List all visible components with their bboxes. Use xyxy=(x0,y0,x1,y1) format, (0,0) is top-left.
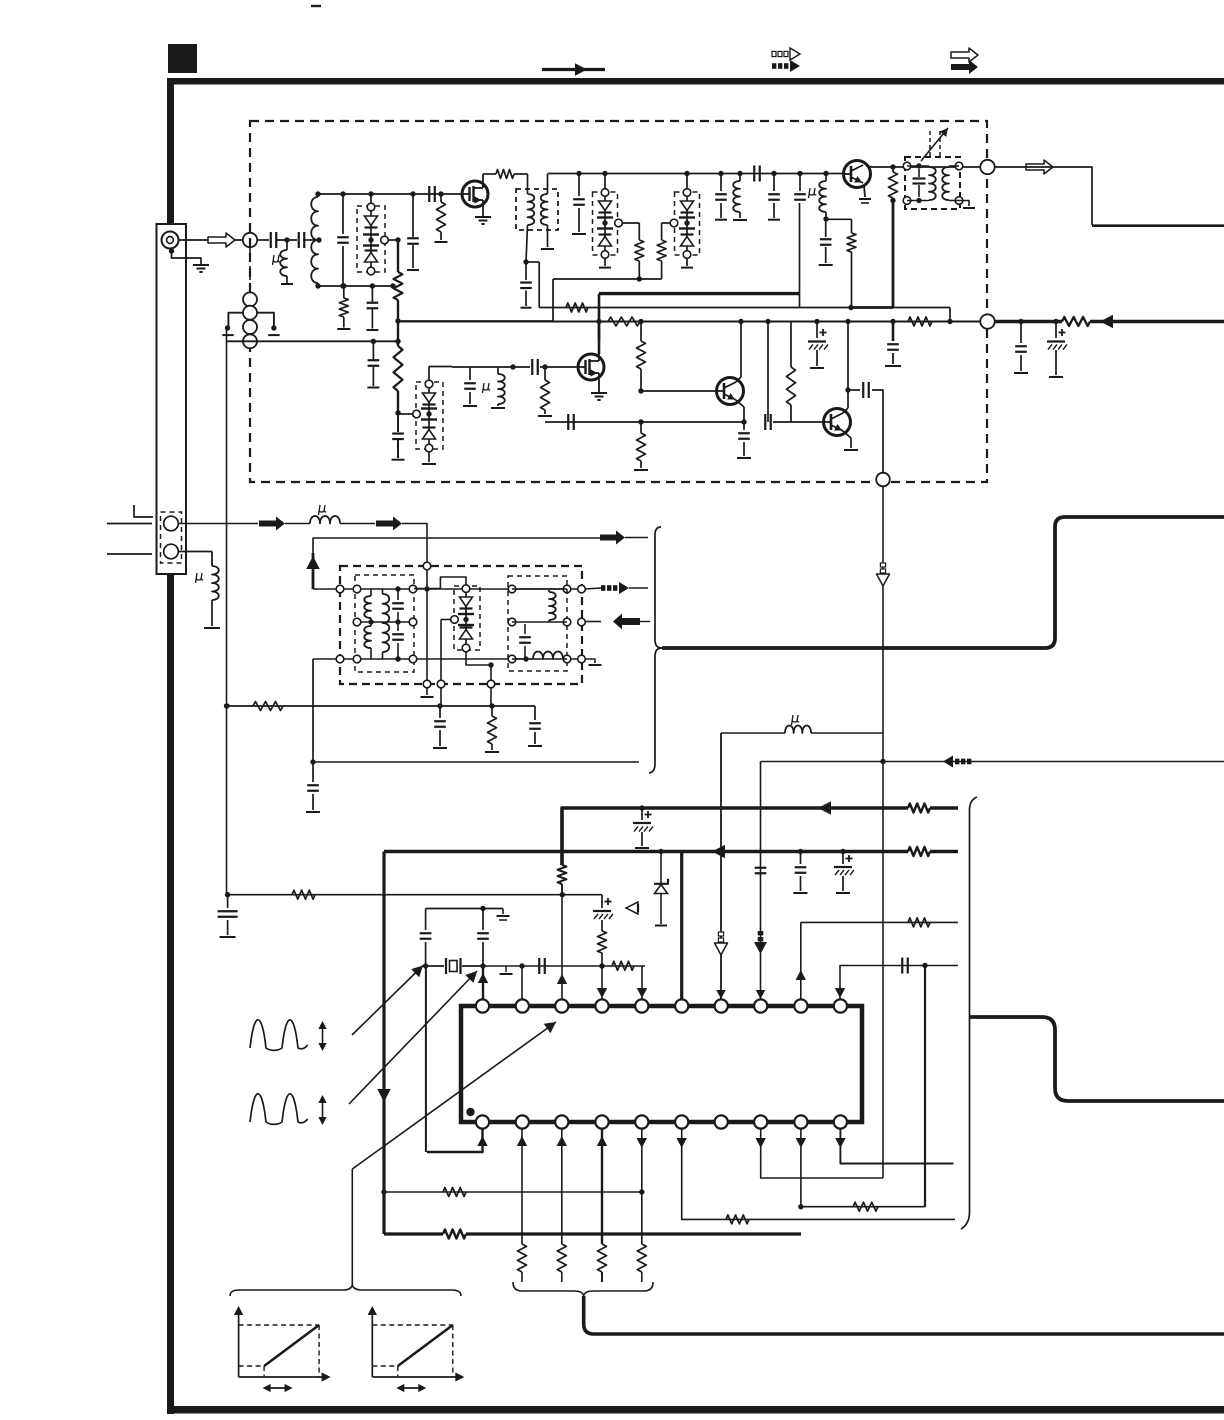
wire y306 drop xyxy=(949,308,951,322)
ground stub xyxy=(505,966,507,972)
transformer T1 xyxy=(903,162,911,170)
sine waveform 1 xyxy=(250,1020,308,1051)
capacitor C4 xyxy=(397,415,399,432)
wire feed top xyxy=(313,538,601,553)
diagonal arrow B xyxy=(349,971,477,1104)
resistor R7 xyxy=(661,223,663,240)
stub marks off-page xyxy=(134,505,153,517)
varactor D3 bottom ground xyxy=(686,258,688,266)
solid arrow osc xyxy=(259,517,285,531)
resistor R26 xyxy=(726,1215,749,1224)
electrolytic C31 xyxy=(639,805,644,810)
resistor R24 xyxy=(612,961,634,970)
varactor box D1 xyxy=(357,206,385,272)
varactor D3 pair xyxy=(683,189,691,197)
arrowhead bus B2 xyxy=(712,845,725,859)
resistor R17 thick xyxy=(1062,317,1090,326)
varactor D5 pair xyxy=(462,585,470,593)
wire Q3b base xyxy=(641,390,716,392)
arrowhead AGC xyxy=(1100,315,1113,329)
crystal X1 xyxy=(423,963,428,968)
resistor R1 xyxy=(395,237,400,242)
wire y761 xyxy=(761,761,1224,763)
resistor R12 xyxy=(608,317,640,326)
wire osc in xyxy=(426,570,428,681)
oscillator dashed box xyxy=(340,566,582,684)
up arrow feed xyxy=(312,553,315,589)
capacitor C10 series xyxy=(753,166,755,182)
electrolytic C35 xyxy=(601,895,603,908)
varactor D4 pair xyxy=(425,380,433,388)
wire into brace xyxy=(629,587,648,589)
resistor R27 xyxy=(853,1202,878,1211)
wire y422 xyxy=(545,421,744,423)
legend solid block arrow xyxy=(951,60,978,74)
wire xyxy=(285,523,310,525)
wire B9 drop xyxy=(800,1128,802,1207)
thick stem to video line xyxy=(584,1296,1224,1334)
ground xo xyxy=(502,909,504,915)
mu label L6 xyxy=(319,505,327,515)
junction xyxy=(922,963,927,968)
ramp graph 2 xyxy=(371,1310,373,1377)
FET Q1 drain wire xyxy=(482,174,484,181)
osc pins row3 xyxy=(336,655,344,663)
capacitor C34 xyxy=(227,895,229,908)
trimmer cap above T1 xyxy=(929,131,931,156)
zener diode D6 xyxy=(658,849,663,854)
resistor R25 xyxy=(908,918,930,927)
resistor R16 xyxy=(908,317,932,326)
inductor L6 xyxy=(310,516,340,524)
wire T4 drop xyxy=(601,966,603,1001)
wire R6-R7 bottom xyxy=(553,278,662,280)
inductor L7 xyxy=(212,566,219,600)
wire box2 row2 xyxy=(512,621,567,623)
down arrow B10 xyxy=(835,1138,845,1148)
capacitor C7 series xyxy=(428,186,430,202)
varactor box D3 xyxy=(675,192,700,255)
trap left bracket xyxy=(228,313,243,330)
wire xo bus xyxy=(483,965,645,967)
wire T5 drop xyxy=(641,966,643,1001)
wire y306 xyxy=(539,307,950,309)
wire B2 drop xyxy=(521,1128,523,1244)
up arrow B4 xyxy=(597,1136,607,1146)
up arrow T3 xyxy=(557,974,567,984)
mu label L4 xyxy=(809,188,817,198)
capacitor C30 series xyxy=(755,867,767,869)
wire B1 path xyxy=(427,1128,483,1152)
connector panel xyxy=(157,224,187,574)
dashed link node to trap xyxy=(249,248,251,290)
up arrow B2 xyxy=(517,1136,527,1146)
capacitor C12 xyxy=(797,171,802,176)
solid down arrow marker xyxy=(377,1089,391,1102)
wire T9 entry xyxy=(800,922,802,1001)
tuner dashed box xyxy=(250,121,987,482)
trap circle stack xyxy=(243,292,257,306)
wire J2b xyxy=(179,551,213,553)
electrolytic C22 xyxy=(814,319,819,324)
open arrow IF out xyxy=(1026,160,1053,174)
mu label L5 xyxy=(483,383,491,393)
down arrow T10 xyxy=(835,988,845,998)
capacitor C28 xyxy=(312,762,314,782)
vertical link xyxy=(440,620,442,682)
resistor R21 thick xyxy=(908,847,930,856)
resistor R6 xyxy=(638,223,640,240)
resistor R22 xyxy=(292,890,315,899)
capacitor C25 xyxy=(524,624,526,634)
capacitor C9 xyxy=(718,171,723,176)
junction xyxy=(395,318,400,323)
mu label L7 xyxy=(196,573,204,583)
osc pins row2 xyxy=(353,618,361,626)
wire y706 xyxy=(227,705,535,707)
wire y1207 xyxy=(801,1206,925,1208)
FET Q1 xyxy=(462,181,488,207)
resistor R33 thick xyxy=(443,1230,466,1239)
capacitor C5 xyxy=(370,283,375,288)
power bus VIF xyxy=(599,292,799,295)
thick bus to right edge xyxy=(662,517,1224,648)
page frame top border xyxy=(167,78,1224,85)
osc box2 xyxy=(508,576,567,671)
ground coax xyxy=(193,264,209,266)
inductor L2 xyxy=(317,194,319,286)
capacitor C16 xyxy=(469,367,471,380)
wire B10 path xyxy=(840,1128,953,1164)
wire y894 xyxy=(228,894,602,896)
FET Q3 source gnd xyxy=(598,380,600,392)
wire L4 bottom tee xyxy=(826,218,852,220)
transistor Q4 xyxy=(824,409,851,436)
diagonal arrow C xyxy=(352,1022,556,1169)
trap right bracket xyxy=(257,313,274,330)
varactor D5 left tap xyxy=(451,616,459,624)
arrowhead bus B1 xyxy=(818,801,831,815)
varactor box D2 xyxy=(593,192,618,255)
capacitor C6 xyxy=(410,191,415,196)
connector J2 dashed box xyxy=(161,512,182,563)
resistor R28 xyxy=(518,1244,527,1272)
wire coax shield to ground xyxy=(172,251,202,264)
varactor D4 side tap xyxy=(413,410,421,418)
IF AGC bus xyxy=(397,321,987,323)
Q3b collector xyxy=(736,377,741,382)
IC U1 bottom pins xyxy=(476,1115,489,1128)
page frame bottom border xyxy=(167,1406,1224,1414)
wire Q2 collector xyxy=(866,166,980,167)
dashed arrow out xyxy=(601,585,605,591)
thick stepped path xyxy=(969,1017,1224,1101)
open dashed arrow down xyxy=(880,569,885,573)
down arrow T4 xyxy=(597,988,607,998)
wire tune line xyxy=(398,320,553,322)
resistor R34 xyxy=(558,865,567,884)
osc top pin xyxy=(423,562,431,570)
wire osc row1 xyxy=(313,588,582,590)
junction dot xyxy=(284,237,289,242)
resistor R11 xyxy=(542,364,547,369)
varactor D1 pair xyxy=(367,203,375,211)
wire B3 drop xyxy=(561,1128,563,1244)
varactor D2 side tap xyxy=(615,219,623,227)
transformer T0 primary xyxy=(514,173,528,175)
node A xyxy=(243,233,257,247)
resistor R20 thick xyxy=(908,804,930,813)
wire T8 drop xyxy=(760,762,762,1001)
wire interstage xyxy=(548,173,845,175)
transformer T2 secondary xyxy=(383,594,390,652)
up arrow B3 xyxy=(557,1136,567,1146)
open dashed arrow T7 xyxy=(718,938,723,942)
coax jack J1 xyxy=(162,232,179,249)
wire J1 to node xyxy=(179,239,243,241)
legend dashed open arrow xyxy=(772,51,776,56)
wire xyxy=(340,523,375,525)
capacitor C38 series xyxy=(538,958,540,974)
brace group right xyxy=(961,797,977,1229)
node RF out xyxy=(980,160,994,174)
capacitor C29 xyxy=(372,341,374,360)
up arrow B1 xyxy=(477,1136,487,1146)
wire row1 jog xyxy=(414,577,466,589)
varactor D2 bottom ground xyxy=(604,258,606,266)
varactor D2 pair xyxy=(601,189,609,197)
junction xyxy=(638,419,643,424)
diagonal arrow A xyxy=(352,966,423,1036)
resistor R18 xyxy=(253,702,283,711)
capacitor C20 series xyxy=(862,382,864,398)
osc box1 xyxy=(355,575,414,672)
wire to node B xyxy=(872,390,883,475)
wire y764 xyxy=(313,761,639,763)
capacitor C3 xyxy=(342,194,344,234)
resistor R30 xyxy=(598,1244,607,1272)
capacitor C8 xyxy=(576,171,581,176)
bus B1 tail xyxy=(930,806,958,810)
IC U1 pin1 mark xyxy=(466,1108,474,1116)
thick wire y1234 xyxy=(384,1232,443,1235)
down arrow B5 xyxy=(637,1138,647,1148)
dashed arrow on y761 xyxy=(967,759,971,765)
transformer T3 coil xyxy=(548,589,550,592)
wire Q3 gate xyxy=(540,366,578,368)
wire osc feedback xyxy=(721,732,785,734)
FET Q3 drain xyxy=(598,322,601,354)
wire osc row3 xyxy=(313,658,582,660)
wire gate top xyxy=(429,366,452,368)
arrowhead T7 xyxy=(716,990,725,999)
transformer T2 primary xyxy=(364,596,371,618)
resistor R9 xyxy=(890,164,895,169)
wire to osc xyxy=(402,524,427,564)
updown arrow 1 xyxy=(322,1023,324,1049)
resistor R15 xyxy=(790,322,792,367)
warning triangle xyxy=(626,902,638,914)
brace graphs xyxy=(230,1285,461,1296)
resistor R2 xyxy=(397,322,399,346)
page frame left border xyxy=(167,78,174,1414)
transformer T1 box xyxy=(905,157,960,209)
legend solid-line arrow xyxy=(542,68,605,71)
Q3b emitter xyxy=(736,400,744,407)
transistor Q2 xyxy=(844,161,871,188)
up arrow T1 xyxy=(478,973,488,983)
brace right xyxy=(649,527,662,773)
transformer T0 box xyxy=(516,189,558,230)
electrolytic C33 xyxy=(840,849,845,854)
junction xyxy=(519,963,524,968)
capacitor C32 xyxy=(798,849,803,854)
inductor L5 xyxy=(497,367,499,374)
capacitor C14 xyxy=(525,262,527,280)
wire T1 drop xyxy=(482,966,484,1001)
connector J2 pins xyxy=(164,516,179,531)
capacitor C17 xyxy=(738,432,750,434)
inductor L1 xyxy=(286,240,288,250)
link T0 to y308 xyxy=(526,261,539,263)
resistor R3 xyxy=(341,283,346,288)
junction xyxy=(890,319,895,324)
wire node B down xyxy=(882,486,884,1178)
thick left drop xyxy=(382,852,385,1235)
junction xyxy=(315,191,320,196)
resistor R5 xyxy=(496,170,514,179)
varactor box D4 xyxy=(416,382,443,449)
mu label L9 xyxy=(792,715,800,725)
capacitor C36 xyxy=(425,909,427,931)
capacitor C19 series xyxy=(764,414,766,430)
down arrow B6 xyxy=(677,1138,687,1148)
sine waveform 2 xyxy=(250,1094,308,1125)
FET Q3 xyxy=(578,354,604,380)
resistor R32 xyxy=(443,1188,466,1197)
supply bus B1 xyxy=(562,808,908,865)
vertical drop Q4 base xyxy=(765,319,770,324)
osc pins row1 xyxy=(336,585,344,593)
T2 caps xyxy=(397,589,399,600)
wire C1-C2 xyxy=(277,239,297,241)
transformer T1 ground xyxy=(959,201,969,207)
wire J2a xyxy=(179,523,259,525)
down arrow B8 xyxy=(756,1138,766,1148)
electrolytic C24 xyxy=(1053,319,1058,324)
capacitor C26 xyxy=(439,706,441,718)
capacitor C23 xyxy=(1018,319,1023,324)
wire osc out2 xyxy=(585,621,601,623)
wire osc out3 xyxy=(312,659,314,762)
capacitor C39 series xyxy=(901,958,903,974)
wire T7 drop xyxy=(720,733,722,1000)
inductor L9 xyxy=(785,726,811,734)
Q2 emitter ground xyxy=(864,185,865,197)
resistor R19 xyxy=(491,706,493,716)
wire B4 drop xyxy=(601,1128,603,1244)
resistor R23 xyxy=(598,931,607,953)
capacitor C21 xyxy=(892,322,895,341)
capacitor C18 series xyxy=(567,414,569,430)
resistor R14 xyxy=(640,422,642,433)
page frame tick mark xyxy=(311,5,321,7)
ramp graph 1 xyxy=(238,1310,240,1377)
capacitor C11 xyxy=(771,171,776,176)
up arrow T9 xyxy=(796,970,806,980)
FET Q1 source ground xyxy=(482,207,484,216)
IC U1 top pins xyxy=(476,999,489,1012)
capacitor C1 xyxy=(270,232,272,248)
capacitor C27 xyxy=(534,706,536,720)
wire x925 drop xyxy=(924,966,926,1208)
varactor D4 bottom xyxy=(428,452,430,462)
arrowhead T8 xyxy=(756,990,765,999)
varactor D1 side tap xyxy=(381,236,389,244)
wire xo top xyxy=(426,908,503,910)
wire T10 entry xyxy=(840,966,958,1002)
open arrow RF in xyxy=(208,233,235,247)
wire mixer out xyxy=(848,389,860,391)
node IF AGC xyxy=(980,314,994,328)
wire input top xyxy=(318,193,462,195)
updown arrow 2 xyxy=(322,1097,324,1123)
legend open block arrow xyxy=(951,48,978,62)
wire box2 row1 xyxy=(512,588,567,590)
resistor R4 xyxy=(438,191,443,196)
thick drop to IF bus xyxy=(892,200,895,308)
wire node to C1 xyxy=(258,239,270,241)
wire B6 path xyxy=(682,1128,955,1219)
transistor Q3b xyxy=(717,378,744,405)
thick seg y307 xyxy=(851,306,893,309)
wire osc out1 xyxy=(585,588,601,589)
inductor L4 xyxy=(823,171,828,176)
varactor D3 side tap xyxy=(670,219,678,227)
thick drop T6 xyxy=(680,852,683,1001)
wire T3 drop xyxy=(561,895,563,1001)
page frame corner square xyxy=(168,44,197,73)
solid arrow osc2 xyxy=(376,517,402,531)
IC U1 body xyxy=(461,1006,862,1122)
solid dashed arrow T8 xyxy=(758,937,764,941)
Q4 emitter xyxy=(843,431,851,438)
wire B5 drop xyxy=(641,1128,643,1244)
capacitor C15 series xyxy=(531,359,533,375)
inductor L3 xyxy=(737,171,742,176)
capacitor C2 xyxy=(298,232,300,248)
node B xyxy=(876,473,890,487)
supply bus B2 xyxy=(384,850,908,854)
down arrow B9 xyxy=(796,1138,806,1148)
legend dashed solid arrow xyxy=(772,63,776,69)
resistor R10 xyxy=(566,303,588,312)
wire to edge upper right xyxy=(995,167,1092,225)
thick arrow in xyxy=(613,614,640,630)
wire y341 xyxy=(227,340,399,342)
thick AGC line xyxy=(995,320,1062,324)
resistor R13 xyxy=(640,322,642,341)
long vertical tune xyxy=(226,328,228,895)
resistor R29 xyxy=(557,1244,566,1272)
resistor R31 xyxy=(637,1244,646,1272)
varactor box D5 xyxy=(454,586,480,650)
junction xyxy=(638,319,643,324)
wire arrow feed1 xyxy=(625,537,648,539)
wire T2 drop xyxy=(521,966,523,1001)
wire y922 xyxy=(801,921,958,923)
brace stem xyxy=(351,1169,353,1285)
